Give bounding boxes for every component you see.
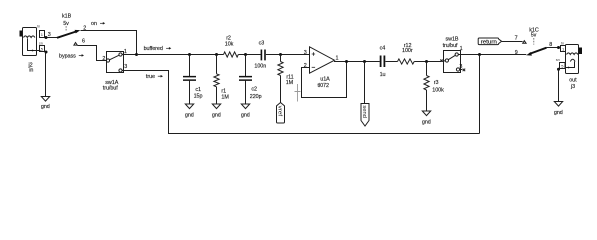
svg-text:1: 1 [41,32,44,37]
ground symbol under J3 [554,102,563,117]
svg-text:bypass: bypass [59,53,76,59]
svg-text:1M: 1M [221,94,229,100]
svg-text:9: 9 [515,50,518,56]
svg-text:1: 1 [336,55,339,61]
junction r11 [279,53,282,56]
junction c2 [244,53,247,56]
svg-text:7: 7 [515,35,518,41]
svg-text:5: 5 [561,63,564,68]
ground symbol under R1 [212,104,221,118]
capacitor C2 [239,55,252,104]
J3 sleeve junction dot [557,68,560,71]
svg-text:tl072: tl072 [318,83,329,89]
svg-text:sw1B: sw1B [446,37,459,43]
resistor R11 [278,55,283,103]
K1C pin 7 contact [523,41,526,44]
J3 sleeve pin box pin 5 [560,63,566,69]
resistor R1 [214,55,219,104]
relay K1C actuator stub [533,38,535,45]
svg-text:3: 3 [304,50,307,56]
svg-text:3: 3 [124,64,127,70]
svg-text:c4: c4 [380,46,386,52]
svg-text:100k: 100k [432,87,444,93]
svg-text:sn: sn [39,41,43,45]
svg-text:2: 2 [304,63,307,69]
junction r1 [215,53,218,56]
svg-text:in: in [29,68,33,74]
svg-text:j3: j3 [570,84,575,90]
ground symbol under R3 [422,111,431,125]
svg-text:buffered: buffered [144,46,163,52]
svg-text:true: true [146,74,155,80]
net flag send [361,104,369,127]
wire return to K1C pin7 [502,41,523,43]
relay K1B actuator stub [65,26,67,31]
svg-text:100r: 100r [402,48,413,54]
wire J2 sleeve to ground [45,52,47,97]
svg-text:c2: c2 [251,87,257,93]
J2 sleeve junction dot [45,51,48,54]
output jack J3 body [566,45,583,74]
capacitor C4 [381,56,385,68]
wire K1B pin2 to buffered rail [81,31,137,55]
junction c1 [188,53,191,56]
wire buffered rail [137,54,224,56]
switch SW1B [444,51,466,73]
svg-text:8: 8 [549,42,552,48]
net flag vref [277,103,285,124]
svg-text:vref: vref [277,106,283,117]
svg-text:tn: tn [37,25,40,29]
svg-text:c1: c1 [195,87,201,93]
svg-text:send: send [361,105,367,118]
svg-text:gnd: gnd [422,119,431,125]
svg-text:c3: c3 [259,41,265,47]
junction feedback [345,60,348,63]
wire to send flag [364,62,366,104]
svg-text:u1A: u1A [320,77,330,83]
svg-text:1M: 1M [286,80,294,86]
svg-text:gnd: gnd [241,112,250,118]
wire J3 sleeve to ground [558,69,560,101]
svg-text:5v: 5v [531,33,537,39]
wire c3 to opamp [266,54,310,56]
svg-text:tru/buf: tru/buf [443,43,458,49]
junction buffered node [135,53,138,56]
ground symbol under C1 [185,104,194,118]
svg-text:10k: 10k [225,42,234,48]
resistor R3 [424,62,429,112]
J2 tip junction dot [45,36,48,39]
svg-text:r2: r2 [226,35,231,41]
ground symbol under J2 [41,97,50,110]
wire r2 to c3 [238,54,260,56]
ground symbol under C2 [241,104,250,118]
svg-text:gnd: gnd [554,110,563,116]
wire opamp feedback [302,62,347,98]
op-amp U1A [310,47,335,73]
wire SW1A pin3 true bypass [122,71,479,134]
junction send [363,60,366,63]
junction r3 [425,60,428,63]
svg-text:k1B: k1B [62,14,72,20]
wire SW1A pin1 to buffered junction [122,54,136,56]
wire r12 to sw1B [414,60,445,63]
svg-text:sn: sn [556,58,560,62]
svg-text:return: return [481,39,497,45]
svg-text:out: out [569,78,577,84]
svg-text:100n: 100n [254,64,266,70]
capacitor C1 [183,55,196,104]
svg-text:gnd: gnd [185,112,194,118]
junction true return [478,53,481,56]
node on arrow [100,22,105,25]
capacitor C3 [261,50,265,61]
input jack J2 body [20,28,41,56]
svg-text:6: 6 [82,39,85,45]
wire opamp output [334,61,380,63]
resistor R2 [224,52,239,57]
wire c4 to r12 [385,61,397,63]
J3 tip junction dot [557,46,560,49]
svg-text:gnd: gnd [212,112,221,118]
svg-text:2: 2 [102,56,105,62]
svg-text:5v: 5v [63,21,69,27]
wire K1C to J3 [547,47,558,49]
J2 tip pin box pin 1 [40,31,45,38]
switch SW1A [106,52,123,73]
node true arrow [158,75,163,78]
svg-text:r3: r3 [434,80,439,86]
svg-text:tru/buf: tru/buf [103,86,118,92]
wire K1B pin6 to SW1A pin2 [77,46,106,61]
svg-text:3: 3 [459,64,462,70]
svg-text:on: on [91,21,97,27]
J3 tip pin box pin 1 [561,46,566,52]
J2 sleeve pin box pin 5 [40,46,45,52]
svg-text:1u: 1u [380,72,386,78]
node bypass arrow [79,54,84,57]
resistor R12 [398,59,415,64]
svg-text:gnd: gnd [41,104,50,110]
wire J2 tip to relay K1B [47,37,60,39]
relay K1C lever [526,48,546,56]
wire SW1B pin1 to K1C [458,54,526,56]
node buffered arrow [166,47,171,50]
svg-text:1: 1 [562,46,565,51]
svg-text:15p: 15p [194,94,203,100]
svg-text:5: 5 [41,46,44,51]
origin marker cross [295,84,301,102]
svg-text:220p: 220p [250,94,262,100]
relay K1B lever [57,30,80,38]
svg-text:1: 1 [460,46,463,52]
net flag return [478,38,501,45]
K1B pin 6 contact [74,43,77,46]
SW1B input pin x mark [440,60,442,62]
wire true rail riser [479,55,481,134]
